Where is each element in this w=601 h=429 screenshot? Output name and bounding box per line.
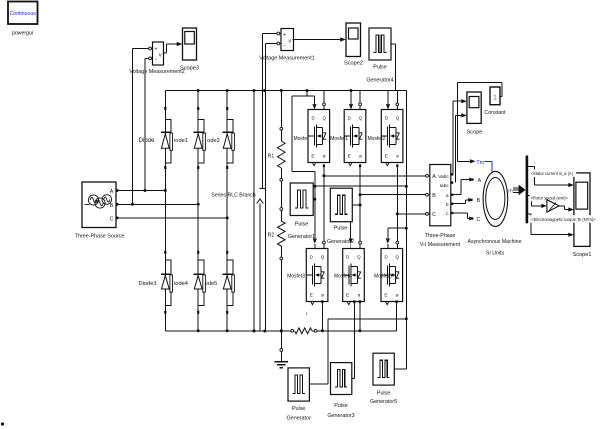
svg-text:iode1: iode1	[174, 138, 188, 144]
svg-text:Three-Phase: Three-Phase	[425, 233, 456, 239]
upper diode labels	[139, 138, 220, 144]
bottom bus wire left	[165, 330, 290, 332]
wire bus to mosfet drain	[323, 91, 326, 110]
svg-text:ø: ø	[396, 293, 399, 298]
mosfet Mosfet2 m-port tick	[386, 163, 389, 166]
svg-text:ø: ø	[396, 154, 399, 159]
svg-text:E: E	[385, 154, 388, 160]
wire phase C to measurement	[397, 213, 425, 215]
svg-text:Three-Phase Source: Three-Phase Source	[75, 233, 125, 239]
diode Diode5	[223, 251, 235, 314]
VM2 - input port	[149, 57, 153, 60]
top bus wire	[165, 90, 406, 92]
machine label	[468, 239, 522, 257]
svg-text:Mosfet: Mosfet	[293, 136, 309, 142]
wire VM1 to Scope2	[294, 37, 346, 41]
wire stator current to Scope1	[528, 167, 574, 188]
series RLC branch (bottom resistor)	[291, 311, 317, 334]
svg-text:SI Units: SI Units	[486, 251, 505, 257]
svg-text:Asynchronous Machine: Asynchronous Machine	[468, 239, 522, 245]
wire PG2 output	[352, 204, 360, 206]
wire VM1 minus down to bottom bus	[263, 44, 277, 333]
three-phase source block	[82, 182, 116, 228]
svg-text:Generator3: Generator3	[327, 413, 354, 419]
voltage measurement VM2 block	[153, 42, 166, 65]
gate bracket wire (col1)	[292, 96, 315, 238]
gate arrow Mosfet	[312, 96, 316, 110]
svg-text:Tm: Tm	[476, 160, 484, 166]
svg-text:E: E	[384, 293, 387, 299]
gate arrow Mosfet4	[349, 222, 353, 249]
svg-text:+: +	[283, 33, 286, 39]
gain block	[547, 200, 559, 212]
svg-text:-: -	[284, 44, 286, 50]
powergui label	[12, 31, 34, 37]
svg-text:A: A	[478, 178, 482, 184]
svg-text:D: D	[310, 255, 313, 260]
wire Mosfet3 source to bus	[321, 303, 324, 332]
svg-text:-: -	[155, 57, 157, 63]
svg-text:Mosfet5: Mosfet5	[374, 274, 392, 280]
Tm wire (blue)	[485, 161, 492, 171]
mosfet Mosfet5 m-port tick	[386, 302, 389, 305]
gate arrow Mosfet5 feed	[386, 228, 407, 248]
wire rotor speed to gain	[528, 195, 547, 208]
VM1 + input port	[277, 32, 281, 35]
constant block	[490, 87, 500, 105]
svg-text:A: A	[110, 189, 114, 195]
diode Diode3	[161, 251, 173, 314]
mosfet row1 labels	[293, 136, 385, 142]
svg-text:ø: ø	[323, 154, 326, 159]
VM2 label	[129, 69, 184, 75]
Tm signal label	[476, 160, 484, 166]
svg-text:R2: R2	[268, 232, 275, 238]
svg-text:ø: ø	[321, 293, 324, 298]
pulse generator PG	[287, 368, 311, 422]
svg-text:C: C	[110, 216, 114, 222]
svg-text:Constant: Constant	[484, 110, 506, 116]
svg-text:D: D	[384, 255, 387, 260]
V-I measurement port B	[426, 193, 430, 196]
wire b to machine B	[453, 198, 473, 204]
mosfet Mosfet3 m-port tick	[311, 302, 314, 305]
svg-text:Scope: Scope	[467, 130, 483, 136]
torque signal label	[531, 215, 599, 222]
svg-text:v: v	[159, 53, 162, 59]
mosfet Mosfet m-port tick	[313, 163, 316, 166]
stator current signal label	[530, 169, 576, 177]
svg-text:Mosfet1: Mosfet1	[330, 136, 348, 142]
scope Scope3	[180, 28, 199, 71]
V-I measurement port A	[426, 174, 430, 177]
svg-text:B: B	[432, 193, 436, 199]
svg-text:Generator5: Generator5	[370, 399, 397, 405]
stray dot	[1, 422, 4, 425]
scope Scope2	[344, 23, 363, 67]
svg-text:E: E	[348, 154, 351, 160]
svg-text:Continuous: Continuous	[10, 11, 37, 17]
unconnected line (open arrow)	[257, 199, 264, 331]
mosfet Mosfet2	[381, 110, 403, 163]
svg-text:Voltage Measurement1: Voltage Measurement1	[259, 56, 314, 62]
pulse generator PG1	[288, 183, 315, 240]
machine port B	[470, 198, 480, 204]
pulse generator PG5	[370, 353, 397, 405]
svg-text:Pulse: Pulse	[295, 222, 309, 228]
svg-text:Generator1: Generator1	[288, 234, 315, 240]
svg-text:E: E	[310, 293, 313, 299]
wire c to machine C	[453, 213, 474, 221]
gate arrow Mosfet1	[349, 91, 353, 110]
wire VM2 minus to phase A	[144, 58, 149, 192]
rectifier leg C column wire	[226, 91, 228, 331]
svg-text:B: B	[110, 203, 114, 209]
mosfet Mosfet5	[381, 249, 403, 302]
ground	[275, 331, 289, 368]
wire phase C	[118, 216, 228, 219]
pulse generator PG4	[366, 28, 393, 84]
svg-text:Iabc: Iabc	[440, 183, 450, 189]
svg-text:r: r	[306, 311, 308, 316]
diode Diode2	[223, 107, 235, 169]
svg-text:Pulse: Pulse	[334, 226, 348, 232]
diode Diode1	[194, 107, 206, 169]
svg-text:1: 1	[493, 95, 497, 102]
svg-text:E: E	[311, 154, 314, 160]
wire stub bus to gate bracket	[306, 91, 308, 97]
svg-text:iode4: iode4	[174, 281, 188, 287]
wire Vabc to scope	[453, 99, 467, 174]
svg-text:Diode: Diode	[139, 138, 155, 144]
bus selector bar	[526, 156, 529, 224]
machine port A	[471, 178, 481, 184]
mosfet Mosfet1 m-port tick	[349, 163, 352, 166]
asynchronous machine block	[483, 171, 508, 226]
machine m bus wire	[513, 185, 526, 196]
mosfet Mosfet4	[343, 249, 365, 302]
svg-text:Mosfet2: Mosfet2	[368, 136, 386, 142]
gate arrow Mosfet2	[386, 91, 390, 110]
phase column B (inverter leg2)	[359, 167, 362, 248]
phase column A (inverter leg1)	[322, 167, 325, 248]
svg-text:Scope2: Scope2	[344, 61, 363, 67]
VM1 label	[259, 56, 314, 62]
phase column C (inverter leg3)	[396, 167, 399, 248]
mosfet row1 source ports	[323, 164, 399, 167]
source port B	[116, 203, 118, 206]
wire bus to mosfet drain	[359, 91, 362, 110]
V-I measurement port C	[426, 213, 430, 216]
gate arrow Mosfet3	[313, 238, 317, 248]
wire phase A to measurement	[324, 175, 426, 177]
diode Diode	[161, 107, 173, 169]
machine port C	[471, 217, 481, 223]
source port A	[116, 189, 118, 192]
V-I output port ticks	[451, 173, 453, 214]
constant label	[484, 110, 506, 116]
source label	[75, 233, 125, 239]
wire Mosfet4 source to bus	[358, 303, 361, 332]
mosfet Mosfet	[308, 110, 330, 163]
svg-text:a: a	[446, 194, 449, 199]
svg-text:R1: R1	[268, 153, 275, 159]
wire PG3 output	[352, 378, 355, 380]
svg-text:Generator4: Generator4	[366, 78, 393, 84]
wire PG5 output	[394, 368, 406, 370]
svg-text:Pulse: Pulse	[292, 406, 306, 412]
svg-text:Pulse: Pulse	[373, 64, 387, 70]
svg-text:Mosfet3: Mosfet3	[287, 274, 305, 280]
Series RLC Branch label	[211, 193, 256, 199]
three-phase V-I measurement block	[430, 165, 451, 226]
svg-text:<Electromagnetic torque Te (N*: <Electromagnetic torque Te (N*m)>	[531, 217, 596, 222]
junction dots bottom bus	[197, 329, 283, 332]
svg-text:+: +	[155, 47, 158, 53]
svg-text:D: D	[348, 116, 351, 121]
svg-text:Pulse: Pulse	[334, 403, 348, 409]
svg-text:ode2: ode2	[207, 138, 220, 144]
wire VM1 plus down (dangling end)	[259, 34, 277, 189]
svg-text:A: A	[432, 174, 436, 180]
wire DC mid vertical	[253, 91, 256, 333]
svg-text:D: D	[346, 255, 349, 260]
wire VM2 to Scope3	[164, 42, 183, 53]
wire phase B	[118, 203, 199, 206]
wire gain to Scope1	[559, 206, 574, 212]
gate wire bottom Lbot2	[328, 318, 407, 320]
svg-text:C: C	[432, 212, 436, 218]
machine m output label	[508, 189, 513, 195]
gate distribution wire L2	[313, 185, 406, 188]
svg-text:Generator: Generator	[287, 416, 311, 422]
mosfet row2 source ports	[321, 300, 397, 303]
wire VM2 plus to phase B	[131, 49, 149, 206]
svg-text:Mosfet4: Mosfet4	[334, 274, 352, 280]
VM1 - input port	[277, 42, 281, 45]
wire PG1 output	[313, 198, 316, 201]
mosfet row2 labels	[287, 274, 392, 280]
wire bus to mosfet drain	[396, 91, 399, 110]
svg-text:Diode3: Diode3	[138, 281, 156, 287]
wire Mosfet4 m-port to PG3	[352, 300, 356, 378]
wire PG4 output to gate bus	[391, 44, 396, 91]
svg-text:E: E	[346, 293, 349, 299]
voltage measurement VM1 block	[281, 29, 295, 51]
resistor R1 (Series RLC Branch)	[268, 91, 285, 182]
svg-text:ode5: ode5	[205, 281, 218, 287]
svg-text:Scope3: Scope3	[180, 65, 199, 71]
wire phase B to measurement	[360, 194, 425, 196]
rectifier leg A column wire	[164, 91, 166, 331]
VM2 + input port	[149, 47, 153, 50]
svg-text:V-I Measurement: V-I Measurement	[420, 242, 461, 248]
svg-text:ø: ø	[359, 154, 362, 159]
svg-text:Pulse: Pulse	[377, 390, 391, 396]
svg-text:D: D	[311, 116, 314, 121]
svg-text:Voltage Measurement2: Voltage Measurement2	[129, 69, 184, 75]
svg-text:D: D	[385, 116, 388, 121]
V-I measurement label	[420, 233, 461, 248]
junction dots on top bus	[197, 89, 353, 92]
svg-text:ø: ø	[358, 293, 361, 298]
rectifier leg B column wire	[197, 91, 199, 331]
mosfet Mosfet3	[306, 249, 328, 302]
wire phase A	[118, 189, 166, 192]
wire Mosfet5 source to bus	[396, 303, 398, 331]
svg-text:Series RLC Branch: Series RLC Branch	[211, 193, 256, 199]
svg-text:B: B	[477, 198, 481, 204]
scope Scope1	[573, 173, 592, 258]
svg-text:Vabc: Vabc	[438, 174, 449, 180]
scope Scope	[467, 92, 483, 136]
bottom bus wire right	[317, 330, 397, 332]
svg-text:<Stator current is_a (A|: <Stator current is_a (A|	[531, 171, 573, 176]
svg-text:C: C	[477, 217, 481, 223]
wire Constant to Tm	[458, 82, 502, 163]
resistor R2 (Series RLC Branch1)	[268, 181, 285, 332]
pulse generator riser	[309, 319, 327, 384]
svg-text:<Rotor speed (wm)>: <Rotor speed (wm)>	[531, 196, 569, 201]
svg-text:v: v	[288, 39, 291, 45]
source port C	[116, 217, 118, 220]
diode Diode4	[194, 251, 206, 314]
wire a to machine A	[453, 178, 474, 195]
gate distribution vertical V1	[405, 91, 408, 370]
wire Iabc to scope	[455, 113, 467, 182]
pulse generator PG3	[327, 363, 354, 420]
svg-text:Scope1: Scope1	[573, 252, 592, 258]
pulse generator PG2	[327, 188, 354, 245]
svg-text:powergui: powergui	[12, 31, 34, 37]
powergui block	[8, 2, 38, 25]
wire torque to Scope1	[528, 214, 574, 237]
mosfet Mosfet4 m-port tick	[347, 302, 350, 305]
svg-text:b: b	[446, 202, 449, 208]
svg-text:m: m	[508, 189, 513, 195]
mosfet Mosfet1	[344, 110, 366, 163]
lower diode labels	[138, 281, 217, 287]
rotor speed signal label	[530, 194, 569, 201]
